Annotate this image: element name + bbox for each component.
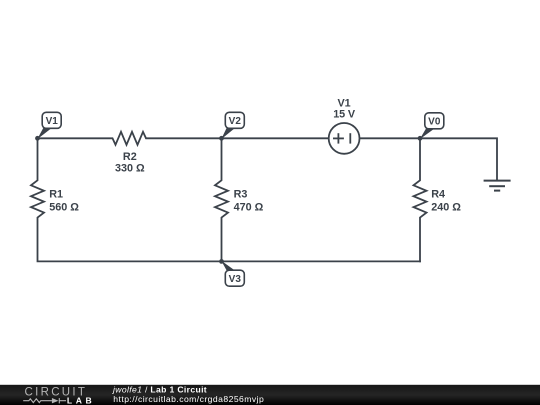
svg-text:470 Ω: 470 Ω [234,202,264,214]
svg-text:R3: R3 [234,189,248,201]
svg-text:http://circuitlab.com/crgda825: http://circuitlab.com/crgda8256mvjp [113,394,264,404]
svg-text:240 Ω: 240 Ω [431,202,461,214]
svg-text:R4: R4 [431,189,445,201]
svg-text:R2: R2 [123,151,137,163]
svg-text:R1: R1 [49,189,63,201]
svg-text:V0: V0 [428,117,441,128]
svg-text:15 V: 15 V [333,109,356,121]
svg-text:560 Ω: 560 Ω [49,202,79,214]
svg-text:jwolfe1 / Lab 1 Circuit: jwolfe1 / Lab 1 Circuit [112,384,207,394]
svg-text:V1: V1 [46,116,59,127]
svg-text:V2: V2 [229,116,242,127]
svg-text:LAB: LAB [67,396,95,405]
svg-text:V3: V3 [229,274,242,285]
svg-text:330 Ω: 330 Ω [115,163,145,175]
